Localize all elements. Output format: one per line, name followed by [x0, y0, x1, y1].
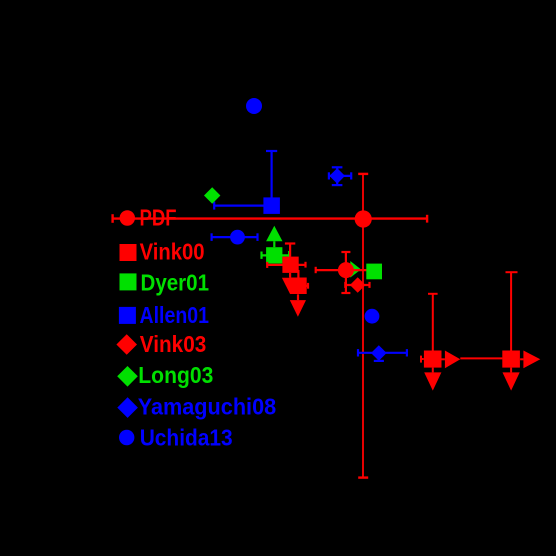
legend marker: green diamond Long03 — [117, 366, 138, 387]
svg-text:Yamaguchi08: Yamaguchi08 — [138, 394, 277, 420]
data point: green diamond Long03 — [204, 187, 220, 203]
svg-text:Vink00: Vink00 — [140, 239, 205, 265]
error bars: blue square Allen01 point — [214, 151, 277, 210]
svg-text:Allen01: Allen01 — [140, 302, 210, 328]
data point: blue diamond Yamaguchi08 upper — [329, 168, 345, 184]
data point: red circle mid — [338, 262, 354, 278]
svg-text:PDF: PDF — [140, 204, 177, 230]
svg-text:Dyer01: Dyer01 — [141, 269, 210, 295]
error bars: blue diamond Yamaguchi08 lower point — [358, 349, 407, 361]
data point: blue circle Uchida13 top — [246, 98, 262, 114]
svg-text:Uchida13: Uchida13 — [140, 424, 233, 450]
data point: blue circle Uchida13 lower — [365, 309, 380, 324]
up arrow head: green — [266, 226, 282, 242]
error bars: red circle Vink00 circle point — [316, 252, 369, 293]
right arrow head: green (behind red circle) — [350, 261, 361, 278]
data point: green square Dyer01 right — [366, 264, 382, 280]
error bars: red circle PDF point (big cross) — [113, 174, 428, 478]
down arrow head: red square A y-limit — [424, 372, 441, 390]
data point: blue square Allen01 — [263, 197, 280, 214]
legend marker: blue circle Uchida13 — [119, 430, 134, 445]
down arrow head: red square 2 limit — [290, 300, 306, 317]
data point: green square Dyer01 — [266, 247, 282, 263]
down arrow head: red square 1 limit — [282, 278, 299, 295]
data point: blue diamond Yamaguchi08 lower — [371, 345, 387, 361]
legend marker: red circle PDF — [120, 210, 135, 225]
legend marker: red diamond Vink03 — [116, 334, 137, 355]
data point: red square limit A — [424, 351, 442, 368]
legend marker: blue square Allen01 — [119, 307, 136, 324]
error bars: red square Vink00 point 1 — [267, 244, 305, 278]
right arrow head: red square B x-limit — [523, 351, 540, 369]
data point: red square limit B — [502, 351, 520, 368]
error bars + lower-limit arrow: green square Dyer01 point — [262, 241, 290, 259]
wire: connecting arm between A arrow and B square — [460, 357, 502, 359]
data point: red square Vink00 #2 — [290, 278, 307, 295]
svg-text:Long03: Long03 — [138, 362, 213, 388]
down arrow head: red square B y-limit — [503, 372, 520, 390]
error bars: red square limit B — [506, 272, 524, 372]
legend marker: green square Dyer01 — [120, 273, 137, 290]
legend marker: blue diamond Yamaguchi08 — [117, 397, 138, 418]
error bars: blue diamond Yamaguchi08 upper point — [329, 167, 351, 185]
data point: red diamond Vink03 — [350, 277, 366, 293]
error bars: blue circle Uchida13 mid point — [212, 233, 258, 241]
error bars: red square Vink00 point 2 — [298, 270, 308, 300]
right arrow head: red square A x-limit — [445, 351, 460, 369]
error bars: red diamond Vink03 point — [345, 282, 369, 288]
legend marker: red square Vink00 — [120, 244, 137, 261]
svg-text:Vink03: Vink03 — [140, 331, 207, 357]
data point: red circle PDF — [355, 210, 372, 227]
error bars: red square limit A — [421, 294, 445, 373]
data point: blue circle Uchida13 mid — [230, 230, 245, 245]
data point: red square Vink00 #1 — [282, 257, 298, 273]
